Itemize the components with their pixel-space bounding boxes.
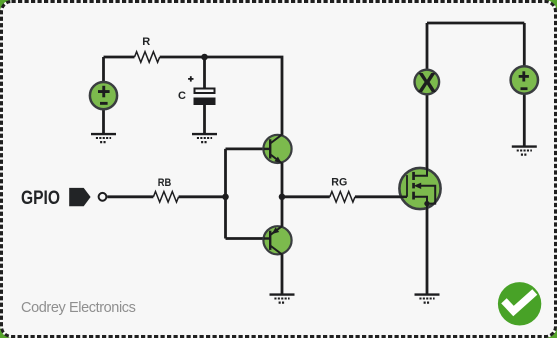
svg-text:RB: RB [158,177,172,189]
svg-text:GPIO: GPIO [21,188,60,209]
svg-text:C: C [178,90,186,102]
svg-text:X: X [418,67,437,98]
svg-text:Codrey Electronics: Codrey Electronics [21,300,136,316]
svg-text:R: R [142,36,150,48]
svg-text:RG: RG [331,177,347,189]
